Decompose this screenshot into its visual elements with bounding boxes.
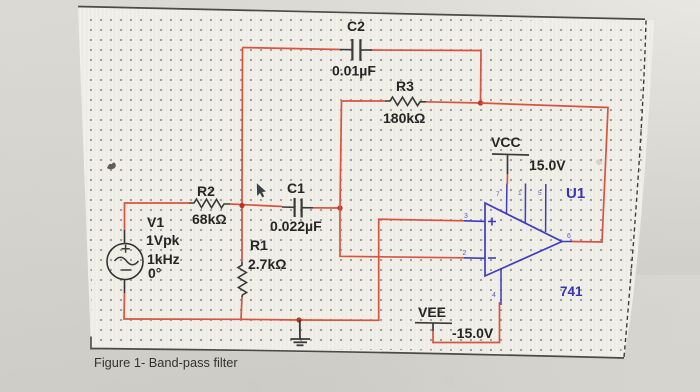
pin 7: [506, 184, 508, 214]
capacitor C2: [340, 39, 372, 61]
capacitor C1: [282, 198, 313, 218]
svg-text:U1: U1: [566, 185, 585, 202]
ground: [291, 320, 311, 345]
svg-text:2.7kΩ: 2.7kΩ: [248, 256, 286, 272]
svg-text:1Vpk: 1Vpk: [146, 232, 180, 248]
svg-text:2: 2: [463, 250, 467, 257]
photo smudge 3: [596, 159, 602, 165]
svg-text:R3: R3: [396, 78, 414, 94]
wire R2 to node A: [230, 204, 282, 207]
right dashed border: [624, 21, 646, 358]
photo smudge 2: [443, 374, 455, 386]
pin 5: [545, 184, 547, 232]
wire feedback: node C to output: [481, 103, 609, 242]
svg-text:741: 741: [560, 284, 583, 299]
wire bottom rail: [124, 219, 464, 320]
wire V1 top to R2: [125, 203, 190, 230]
svg-text:6: 6: [567, 233, 571, 240]
svg-text:VCC: VCC: [491, 134, 521, 150]
top border: [78, 7, 645, 20]
svg-text:C1: C1: [287, 180, 305, 196]
power VEE symbol: [415, 323, 452, 331]
svg-text:VEE: VEE: [418, 304, 446, 320]
wire node A column (C2 corner down to R1): [241, 48, 244, 263]
bottom-left corner mark: [90, 337, 92, 350]
wire VCC to pin 7: [506, 174, 508, 184]
resistor R2: [189, 199, 230, 208]
pin 1: [524, 184, 526, 223]
minus input mark: [488, 257, 496, 259]
bottom-right bezel lighter patch: [330, 275, 700, 392]
mouse cursor: [257, 183, 266, 197]
screen texture stripes: [78, 7, 654, 357]
wire C2 right, down to node C: [372, 50, 481, 103]
svg-text:C2: C2: [347, 18, 365, 34]
node D junction (ground tap): [296, 317, 301, 322]
photo speck: [107, 162, 116, 169]
screen white area: [78, 7, 654, 357]
svg-text:0.01µF: 0.01µF: [332, 63, 376, 79]
svg-text:-15.0V: -15.0V: [452, 325, 494, 341]
output stub pin 6: [562, 241, 572, 243]
svg-text:15.0V: 15.0V: [529, 157, 566, 173]
svg-text:R1: R1: [250, 237, 268, 253]
photo smudge 1: [246, 378, 260, 392]
pin 4: [500, 269, 502, 306]
node C junction: [478, 100, 483, 105]
svg-text:4: 4: [492, 292, 496, 299]
svg-text:3: 3: [464, 213, 468, 220]
bottom border: [91, 349, 624, 359]
wire node B down to inverting input: [340, 208, 464, 258]
svg-text:Figure 1- Band-pass filter: Figure 1- Band-pass filter: [94, 355, 238, 370]
power VCC symbol: [492, 154, 529, 174]
wire C1 to node B: [313, 207, 340, 209]
wire R3 left: [342, 100, 386, 102]
wire C2 left: [243, 48, 341, 50]
plus input mark: [488, 218, 496, 226]
pin 3 stub: [464, 220, 485, 223]
resistor R3: [385, 97, 426, 106]
node A junction: [239, 203, 244, 208]
svg-text:0.022µF: 0.022µF: [270, 218, 322, 234]
node B junction: [337, 205, 342, 210]
wire node B up to R3 left: [340, 101, 342, 208]
source V1: [107, 230, 143, 293]
wire VEE to pin 4: [433, 302, 500, 343]
svg-text:180kΩ: 180kΩ: [383, 110, 425, 126]
svg-text:5: 5: [538, 190, 542, 197]
wire R3 right to node C: [426, 102, 481, 103]
grid dots: [82, 11, 650, 353]
svg-text:V1: V1: [147, 214, 164, 230]
op-amp U1: [485, 184, 572, 306]
resistor R1: [238, 262, 247, 297]
svg-text:0°: 0°: [148, 265, 161, 281]
svg-text:68kΩ: 68kΩ: [192, 211, 227, 227]
svg-text:7: 7: [496, 191, 500, 198]
wire R1 bottom: [241, 297, 242, 319]
svg-text:R2: R2: [197, 183, 215, 199]
pin 2 stub: [464, 257, 485, 260]
svg-text:1: 1: [518, 190, 522, 197]
